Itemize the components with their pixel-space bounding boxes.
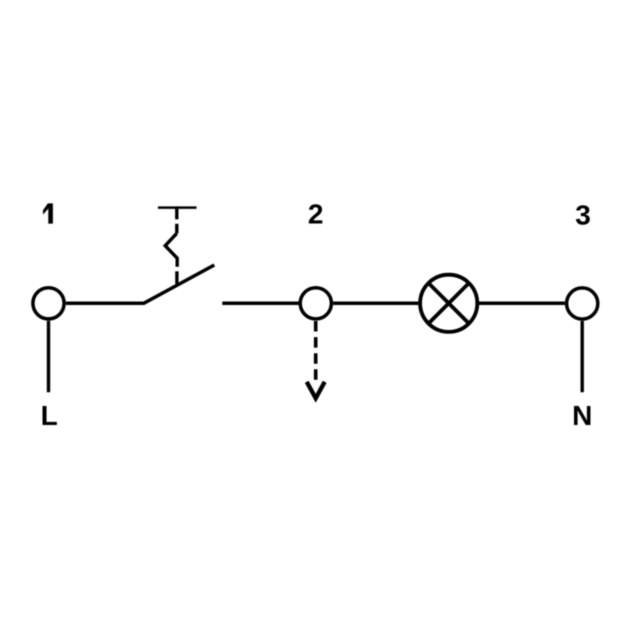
svg-text:N: N bbox=[572, 400, 592, 431]
lamp E1 circle bbox=[420, 275, 477, 332]
wire lamp to terminal 3 bbox=[479, 302, 565, 306]
lamp E1 cross stroke 2 bbox=[428, 283, 469, 324]
switch actuator T-bar bbox=[158, 206, 197, 209]
wire switch to terminal 2 bbox=[222, 302, 298, 306]
dashed arrow line below terminal 2 bbox=[314, 321, 318, 385]
svg-text:2: 2 bbox=[308, 199, 324, 230]
svg-text:L: L bbox=[41, 400, 58, 431]
label 1 bbox=[43, 203, 53, 223]
switch actuator dash lower linkage bbox=[175, 271, 178, 284]
wire terminal1 to switch + switch blade S1 bbox=[66, 265, 215, 303]
terminal 2 bbox=[300, 288, 331, 319]
switch actuator stem bbox=[175, 206, 178, 219]
wire terminal3 to N bbox=[581, 321, 584, 392]
dashed arrow head bbox=[307, 382, 325, 399]
switch actuator spring chevron bbox=[165, 233, 177, 266]
terminal 1 bbox=[33, 288, 64, 319]
svg-text:3: 3 bbox=[575, 200, 591, 231]
terminal 3 bbox=[567, 288, 598, 319]
wire terminal 2 to lamp bbox=[333, 302, 418, 306]
lamp E1 cross stroke 1 bbox=[428, 283, 469, 324]
wire terminal1 to L bbox=[47, 321, 50, 393]
switch actuator dash upper bbox=[175, 224, 178, 234]
